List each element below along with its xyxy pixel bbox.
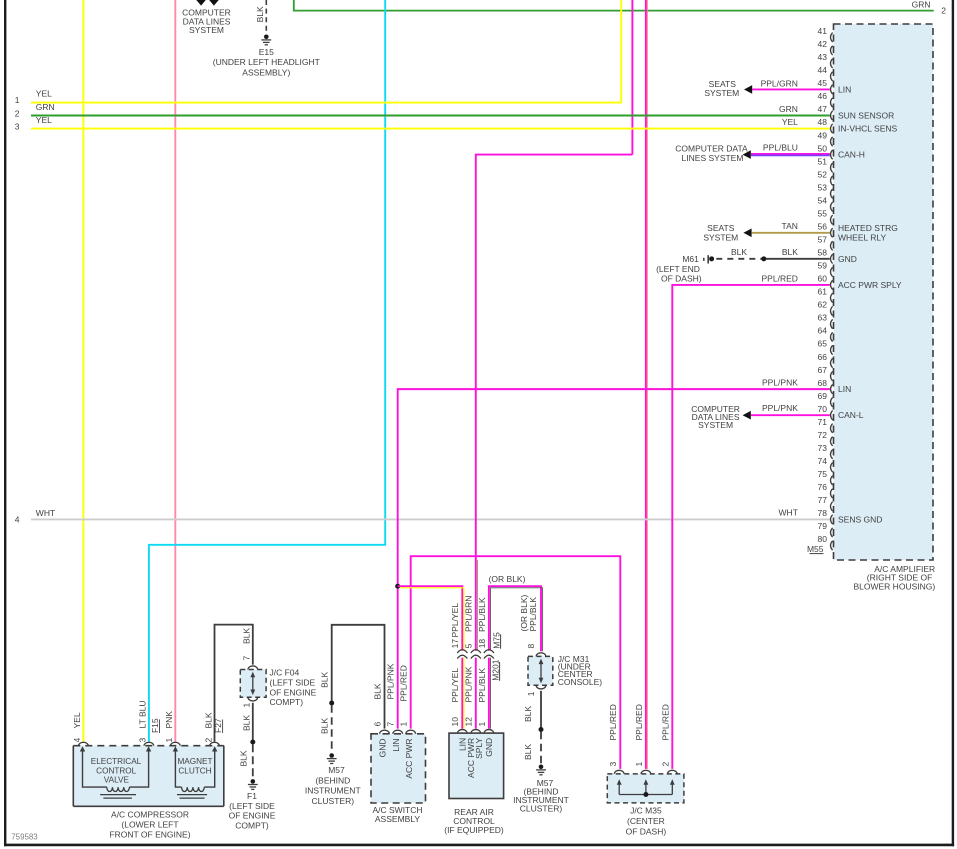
svg-text:7: 7 xyxy=(386,722,396,727)
pin label ACC PWR SPLY (60) xyxy=(838,280,902,290)
svg-text:PPL/YEL: PPL/YEL xyxy=(450,668,460,703)
label SEATS SYSTEM (pin 56) xyxy=(703,223,738,243)
junction dot (J/C M35 bus) xyxy=(643,792,648,797)
svg-text:WHT: WHT xyxy=(36,508,55,518)
svg-text:PPL/RED: PPL/RED xyxy=(762,274,798,284)
electrical control valve box xyxy=(83,749,149,788)
svg-text:69: 69 xyxy=(818,391,828,401)
svg-text:BLK: BLK xyxy=(255,6,265,22)
computer data lines arrow A xyxy=(196,0,206,6)
svg-text:BLK: BLK xyxy=(320,672,330,688)
pin label HEATED STRG WHEEL RLY (56) xyxy=(838,223,898,243)
label A/C SWITCH ASSEMBLY xyxy=(372,805,422,824)
svg-text:OF DASH): OF DASH) xyxy=(661,273,702,283)
svg-text:ASSEMBLY: ASSEMBLY xyxy=(375,814,421,824)
svg-text:PPL/YEL: PPL/YEL xyxy=(450,603,460,638)
label (OR BLK) PPL/BLK vertical xyxy=(519,594,538,631)
label PPL/RED (pin 60) xyxy=(762,274,798,284)
label M57 (BEHIND INSTRUMENT CLUSTER) right xyxy=(513,778,569,814)
svg-text:BLK: BLK xyxy=(782,247,798,257)
junction dot (M57 branch) xyxy=(329,701,334,706)
svg-text:(LOWER LEFT: (LOWER LEFT xyxy=(121,820,178,830)
node tag 2 (right edge) xyxy=(941,6,946,16)
svg-text:43: 43 xyxy=(818,52,828,62)
pin 8 label (J/C M31) xyxy=(526,644,536,649)
wire GRN (top, exits right edge, tag 2) xyxy=(294,0,934,11)
svg-text:(BEHIND: (BEHIND xyxy=(315,775,350,785)
label J/C M35 (CENTER OF DASH) xyxy=(626,805,667,836)
svg-text:LIN: LIN xyxy=(391,739,401,752)
svg-text:PPL/RED: PPL/RED xyxy=(661,704,671,740)
wire YEL tag3 to amplifier pin 48 xyxy=(31,128,830,130)
svg-text:CONSOLE): CONSOLE) xyxy=(558,677,603,687)
pin 3 label (compressor) xyxy=(138,738,148,743)
svg-text:57: 57 xyxy=(818,235,828,245)
pin label LIN (REAR AIR) xyxy=(458,738,468,751)
svg-text:OF DASH): OF DASH) xyxy=(626,827,667,837)
connector hooks REAR AIR CONTROL xyxy=(457,730,494,734)
svg-text:4: 4 xyxy=(72,738,82,743)
svg-text:45: 45 xyxy=(818,78,828,88)
inline connector M75/M201 pin 5 xyxy=(471,650,481,659)
svg-text:53: 53 xyxy=(818,182,828,192)
wire PPL/PNK from pin 68 LIN to A/C switch pin 7 xyxy=(398,389,830,728)
connector hooks A/C SWITCH ASSEMBLY xyxy=(380,730,416,734)
svg-text:COMPT): COMPT) xyxy=(270,697,304,707)
svg-text:M75: M75 xyxy=(491,632,501,649)
wire YEL vertical to compressor pin 4 xyxy=(82,0,84,742)
pin 1 label (compressor) xyxy=(164,738,174,743)
label BLK (M31 lower) xyxy=(523,744,533,760)
svg-text:3: 3 xyxy=(138,738,148,743)
label A/C COMPRESSOR (LOWER LEFT FRONT OF ENGINE) xyxy=(109,810,190,840)
pin label LIN (45) xyxy=(838,84,851,94)
svg-text:ELECTRICAL: ELECTRICAL xyxy=(91,757,142,766)
svg-text:COMPT): COMPT) xyxy=(235,820,269,830)
svg-text:BLK: BLK xyxy=(203,712,213,728)
svg-text:INSTRUMENT: INSTRUMENT xyxy=(305,786,361,796)
pin label LIN (A/C switch) xyxy=(391,739,401,752)
arrow to seats system (pin 45) xyxy=(744,85,752,94)
connector hooks J/C M35 xyxy=(614,770,677,774)
pin label GND (58) xyxy=(838,254,857,264)
label M201 xyxy=(490,659,500,681)
label A/C AMPLIFIER (RIGHT SIDE OF BLOWER HOUSING) xyxy=(853,564,935,592)
svg-text:70: 70 xyxy=(818,404,828,414)
svg-text:4: 4 xyxy=(15,514,20,524)
connector M61 stub symbol xyxy=(704,255,708,263)
svg-text:SYSTEM: SYSTEM xyxy=(698,420,733,430)
pin label SENS GND (78) xyxy=(838,514,882,524)
svg-text:PPL/RED: PPL/RED xyxy=(634,704,644,740)
label BLK (switch gnd lower) xyxy=(320,718,330,734)
svg-text:51: 51 xyxy=(818,156,828,166)
svg-text:(LEFT SIDE: (LEFT SIDE xyxy=(270,677,316,687)
label PPL/BLK (above M75) xyxy=(477,597,487,632)
svg-text:M55: M55 xyxy=(807,544,824,554)
pin 1 label (J/C M31) xyxy=(526,691,536,696)
svg-text:68: 68 xyxy=(818,378,828,388)
pin label CAN-L (70) xyxy=(838,410,864,420)
label M57 (BEHIND INSTRUMENT CLUSTER) left xyxy=(305,765,361,806)
svg-text:PPL/BRN: PPL/BRN xyxy=(464,596,474,632)
wire BLK dashed to F1 ground xyxy=(252,744,254,777)
svg-text:1: 1 xyxy=(477,722,487,727)
pin label ACC PWR (A/C switch) xyxy=(404,739,414,779)
label M55 xyxy=(807,544,824,554)
svg-text:E15: E15 xyxy=(259,47,274,57)
svg-text:42: 42 xyxy=(818,39,828,49)
label TAN xyxy=(782,221,798,231)
wire PPL/YEL M201 to REAR AIR pin 10 xyxy=(462,658,464,729)
svg-text:GND: GND xyxy=(378,739,388,758)
label (OR BLK) horizontal xyxy=(489,574,526,584)
label LT BLU (compressor pin 3) xyxy=(138,700,148,728)
clutch coil xyxy=(177,787,207,798)
svg-text:CLUTCH: CLUTCH xyxy=(178,767,211,776)
svg-text:49: 49 xyxy=(818,130,828,140)
wire PPL/BLK REAR AIR GND to J/C M31 pin 8 xyxy=(489,586,543,651)
wire BLK dashed to M57 ground xyxy=(331,705,333,751)
svg-text:2: 2 xyxy=(661,762,671,767)
wire PNK vertical to compressor pin 1 xyxy=(174,0,176,742)
connector hooks A/C COMPRESSOR xyxy=(78,742,219,745)
label BLK (dashed segment) xyxy=(731,247,747,257)
label PPL/PNK (pin 68) xyxy=(762,377,798,387)
ground F1 xyxy=(248,779,258,789)
connector hook J/C M31 top xyxy=(536,653,546,657)
magnet clutch box xyxy=(175,749,214,788)
svg-text:YEL: YEL xyxy=(36,89,52,99)
clutch pin arrows xyxy=(173,746,218,751)
label F15 xyxy=(150,718,160,733)
svg-text:6: 6 xyxy=(372,722,382,727)
svg-text:71: 71 xyxy=(818,417,828,427)
label PPL/PNK (pin 70) xyxy=(762,403,798,413)
wire PPL/PNK to COMPUTER DATA LINES SYSTEM (pin 70) xyxy=(751,414,830,416)
svg-text:CONTROL: CONTROL xyxy=(96,766,136,775)
wire BLK dashed to M57 ground (right) xyxy=(540,732,542,764)
svg-text:58: 58 xyxy=(818,248,828,258)
label BLK (A/C switch pin 6) xyxy=(372,683,382,699)
junction dot on LIN wire xyxy=(395,584,400,589)
svg-text:FRONT OF ENGINE): FRONT OF ENGINE) xyxy=(109,829,190,839)
svg-text:SPLY: SPLY xyxy=(474,737,484,758)
junction dot (F1 branch) xyxy=(250,740,255,745)
pin 7 label (J/C F04) xyxy=(241,656,251,661)
svg-text:A/C COMPRESSOR: A/C COMPRESSOR xyxy=(111,810,189,820)
svg-text:78: 78 xyxy=(818,508,828,518)
svg-text:BLK: BLK xyxy=(241,715,251,731)
pin label LIN (68) xyxy=(838,384,851,394)
amplifier pin numbers 41-80 xyxy=(818,26,828,544)
ground M57 (left) xyxy=(327,753,337,763)
svg-text:J/C F04: J/C F04 xyxy=(270,668,300,678)
label PPL/BLU xyxy=(763,142,798,152)
svg-text:GRN: GRN xyxy=(36,102,55,112)
svg-text:(IF EQUIPPED): (IF EQUIPPED) xyxy=(444,825,504,835)
svg-text:PPL/BLK: PPL/BLK xyxy=(477,597,487,632)
computer data lines arrow B xyxy=(209,0,219,6)
svg-text:MAGNET: MAGNET xyxy=(177,757,212,766)
svg-text:59: 59 xyxy=(818,261,828,271)
svg-text:47: 47 xyxy=(818,104,828,114)
label BLK (above J/C F04) xyxy=(241,628,251,644)
svg-text:PPL/BLK: PPL/BLK xyxy=(477,668,487,703)
label PPL/YEL (below M201) xyxy=(450,668,460,703)
label WHT (wire 4) xyxy=(36,508,55,518)
svg-text:TAN: TAN xyxy=(782,221,798,231)
label PPL/PNK (A/C switch pin 7) xyxy=(386,663,396,699)
pin 2 label (J/C M35) xyxy=(661,762,671,767)
pin 5 label xyxy=(464,643,474,648)
svg-text:F15: F15 xyxy=(150,718,160,733)
svg-text:WHEEL RLY: WHEEL RLY xyxy=(838,233,887,243)
label BLK (dashed to F1) xyxy=(239,750,249,766)
amplifier pin hooks 41-80 xyxy=(831,33,833,551)
svg-text:LIN: LIN xyxy=(838,384,851,394)
svg-text:76: 76 xyxy=(818,482,828,492)
component A/C AMPLIFIER connector box xyxy=(834,24,934,560)
svg-text:2: 2 xyxy=(15,108,20,118)
label PPL/PNK (below M201) xyxy=(464,666,474,702)
wire BLK to E15 (dashed) xyxy=(265,0,267,33)
svg-text:PPL/PNK: PPL/PNK xyxy=(386,663,396,699)
pin label ACC PWR SPLY (REAR AIR) xyxy=(466,737,484,777)
svg-text:SYSTEM: SYSTEM xyxy=(704,88,739,98)
svg-text:F27: F27 xyxy=(213,718,223,733)
ground E15 xyxy=(261,35,271,45)
label REAR AIR CONTROL (IF EQUIPPED) xyxy=(444,807,504,835)
svg-text:LINES SYSTEM: LINES SYSTEM xyxy=(682,153,744,163)
pin label GND (A/C switch) xyxy=(378,739,388,758)
node tag 1 (left) xyxy=(15,95,20,105)
wire BLK A/C switch GND to M57 ground xyxy=(332,625,385,729)
label PPL/BRN (above M75) xyxy=(464,596,474,632)
svg-text:66: 66 xyxy=(818,352,828,362)
label BLK (M31 upper) xyxy=(523,706,533,722)
svg-text:73: 73 xyxy=(818,443,828,453)
wire PPL/RED link A/C switch ACC PWR to J/C M35 pin 3 xyxy=(411,556,621,769)
svg-text:CAN-L: CAN-L xyxy=(838,410,864,420)
svg-text:BLK: BLK xyxy=(239,750,249,766)
svg-text:72: 72 xyxy=(818,430,828,440)
wire PPL/RED vertical (from top) to J/C M35 pin 1 xyxy=(646,0,648,769)
svg-text:PNK: PNK xyxy=(164,711,174,729)
J/C M31 internal arrows xyxy=(539,659,544,684)
svg-text:56: 56 xyxy=(818,221,828,231)
wire BLK compressor pin 2 to J/C F04 pin 7 xyxy=(215,625,253,742)
svg-text:YEL: YEL xyxy=(782,117,798,127)
svg-text:BLK: BLK xyxy=(731,247,747,257)
svg-text:BLK: BLK xyxy=(320,718,330,734)
svg-text:SEATS: SEATS xyxy=(707,223,735,233)
node tag 2 (left) xyxy=(15,108,20,118)
wire PPL/BLU to COMPUTER DATA LINES SYSTEM (pin 50) xyxy=(751,154,830,156)
svg-text:BLK: BLK xyxy=(241,628,251,644)
svg-text:IN-VHCL SENS: IN-VHCL SENS xyxy=(838,124,898,134)
connector hook J/C F04 bottom xyxy=(248,697,258,701)
svg-text:PPL/RED: PPL/RED xyxy=(608,704,618,740)
svg-text:BLOWER HOUSING): BLOWER HOUSING) xyxy=(853,581,935,591)
label J/C F04 (LEFT SIDE OF ENGINE COMPT) xyxy=(270,668,317,708)
svg-text:GND: GND xyxy=(838,254,857,264)
wire BLK from J/C M31 pin 1 xyxy=(540,691,542,728)
label M75 xyxy=(491,632,501,649)
svg-text:67: 67 xyxy=(818,365,828,375)
label WHT (at pin 78) xyxy=(779,508,798,518)
label COMPUTER DATA LINES SYSTEM (top left) xyxy=(182,7,231,35)
svg-text:80: 80 xyxy=(818,534,828,544)
svg-text:79: 79 xyxy=(818,521,828,531)
label PPL/RED (M35 pin 1) xyxy=(634,704,644,740)
svg-text:17: 17 xyxy=(450,639,460,649)
label PPL/RED (M35 pin 3) xyxy=(608,704,618,740)
pin 1 label (J/C M35) xyxy=(634,762,644,767)
wire GRN tag2 to amplifier pin 47 xyxy=(31,115,830,117)
svg-text:2: 2 xyxy=(941,6,946,16)
svg-text:1: 1 xyxy=(164,738,174,743)
svg-text:GRN: GRN xyxy=(779,104,798,114)
junction dot M61 pigtail right xyxy=(761,256,766,261)
svg-text:5: 5 xyxy=(464,643,474,648)
pin 4 label (compressor) xyxy=(72,738,82,743)
pin 1 label (REAR AIR) xyxy=(477,722,487,727)
svg-text:PPL/BLK: PPL/BLK xyxy=(528,597,538,632)
valve pin arrows xyxy=(80,746,152,751)
pin label SUN SENSOR (47) xyxy=(838,111,894,121)
wire BLK from J/C F04 pin 1 xyxy=(252,703,254,740)
label COMPUTER DATA LINES SYSTEM (pin 70) xyxy=(691,404,740,430)
svg-text:3: 3 xyxy=(15,122,20,132)
component REAR AIR CONTROL box xyxy=(449,733,504,798)
svg-text:77: 77 xyxy=(818,495,828,505)
wire PPL horizontal + drop to M75 pin 5 xyxy=(476,155,633,651)
svg-text:52: 52 xyxy=(818,169,828,179)
wire WHT tag4 to amplifier pin 78 xyxy=(31,518,830,520)
svg-text:PPL/PNK: PPL/PNK xyxy=(464,666,474,702)
node tag 4 (left) xyxy=(15,514,20,524)
svg-text:1: 1 xyxy=(241,703,251,708)
label SEATS SYSTEM (pin 45) xyxy=(704,79,739,98)
svg-text:SUN SENSOR: SUN SENSOR xyxy=(838,111,894,121)
diagram number 759583 xyxy=(11,833,38,842)
svg-text:BLK: BLK xyxy=(372,683,382,699)
svg-text:PPL/GRN: PPL/GRN xyxy=(761,78,798,88)
svg-text:F1: F1 xyxy=(247,791,257,801)
label BLK (below J/C F04) xyxy=(241,715,251,731)
inline connector M75/M201 pin 17 xyxy=(457,650,467,659)
label (LEFT END OF DASH) xyxy=(656,264,702,283)
svg-text:3: 3 xyxy=(608,762,618,767)
component J/C M31 box xyxy=(528,656,553,685)
svg-text:1: 1 xyxy=(526,691,536,696)
svg-text:1: 1 xyxy=(634,762,644,767)
svg-text:61: 61 xyxy=(818,287,828,297)
wire PPL/BLK M201 to REAR AIR pin 1 xyxy=(489,658,491,729)
ground M57 (right) xyxy=(536,765,546,775)
label J/C M31 (UNDER CENTER CONSOLE) xyxy=(558,654,603,687)
svg-text:(OR BLK): (OR BLK) xyxy=(489,574,526,584)
wire TAN to SEATS SYSTEM (pin 56) xyxy=(752,232,830,234)
svg-text:60: 60 xyxy=(818,274,828,284)
label YEL (wire 1) xyxy=(36,89,52,99)
label PNK (compressor pin 1) xyxy=(164,711,174,729)
svg-text:1: 1 xyxy=(15,95,20,105)
pin 1 label (J/C F04) xyxy=(241,703,251,708)
label PPL/GRN xyxy=(761,78,798,88)
label PPL/YEL (above M75) xyxy=(450,603,460,638)
svg-text:BLK: BLK xyxy=(523,706,533,722)
svg-text:ASSEMBLY): ASSEMBLY) xyxy=(242,67,290,77)
svg-text:YEL: YEL xyxy=(72,712,82,728)
svg-text:YEL: YEL xyxy=(36,115,52,125)
label PPL/RED (A/C switch pin 1) xyxy=(399,665,409,701)
svg-text:1: 1 xyxy=(399,722,409,727)
inline connector M75/M201 pin 18 xyxy=(484,650,494,659)
svg-text:BLK: BLK xyxy=(523,744,533,760)
svg-text:COMPUTER DATA: COMPUTER DATA xyxy=(675,143,748,153)
svg-text:(UNDER LEFT HEADLIGHT: (UNDER LEFT HEADLIGHT xyxy=(213,57,320,67)
wire PPL/PNK M201 to REAR AIR pin 12 xyxy=(475,658,477,729)
label M61 xyxy=(682,254,699,264)
svg-text:CLUSTER): CLUSTER) xyxy=(312,796,355,806)
pin 10 label (REAR AIR) xyxy=(450,717,460,727)
pin label GND (REAR AIR) xyxy=(484,738,494,757)
svg-text:WHT: WHT xyxy=(779,508,798,518)
svg-text:OF ENGINE: OF ENGINE xyxy=(270,687,317,697)
pin label IN-VHCL SENS (48) xyxy=(838,124,898,134)
svg-text:48: 48 xyxy=(818,117,828,127)
svg-text:759583: 759583 xyxy=(11,833,38,842)
svg-text:PPL/PNK: PPL/PNK xyxy=(762,377,798,387)
pin 7 label (A/C switch) xyxy=(386,722,396,727)
pin label CAN-H (50) xyxy=(838,150,865,160)
pin 1 label (A/C switch) xyxy=(399,722,409,727)
svg-text:PPL/BLU: PPL/BLU xyxy=(763,142,798,152)
wire PPL vertical (from top) to corner xyxy=(631,0,633,155)
pin 12 label (REAR AIR) xyxy=(464,717,474,727)
svg-text:64: 64 xyxy=(818,326,828,336)
svg-text:M57: M57 xyxy=(328,765,345,775)
svg-text:12: 12 xyxy=(464,717,474,727)
wire BLK M61 pigtail to GND (pin 58) xyxy=(716,258,830,260)
svg-text:55: 55 xyxy=(818,208,828,218)
label E15 (under left headlight assembly) xyxy=(213,47,320,77)
connector hook J/C M31 bottom xyxy=(536,685,546,689)
svg-text:M61: M61 xyxy=(682,254,699,264)
label BLK (solid segment) xyxy=(782,247,798,257)
wire YEL tag1 to top edge xyxy=(31,0,621,103)
pin 2 label (compressor) xyxy=(203,738,213,743)
svg-text:M201: M201 xyxy=(490,659,500,681)
svg-text:SYSTEM: SYSTEM xyxy=(189,25,224,35)
junction dot (M31 gnd branch) xyxy=(539,727,544,732)
label GRN (wire 2) xyxy=(36,102,55,112)
wire PPL/GRN to SEATS SYSTEM (pin 45) xyxy=(752,88,830,90)
svg-text:65: 65 xyxy=(818,339,828,349)
arrow to computer data lines system (pin 70) xyxy=(743,411,751,420)
svg-text:CLUSTER): CLUSTER) xyxy=(520,804,563,814)
valve coil xyxy=(100,787,136,798)
label BLK (switch gnd upper) xyxy=(320,672,330,688)
svg-text:OF ENGINE: OF ENGINE xyxy=(229,811,276,821)
svg-text:75: 75 xyxy=(818,469,828,479)
svg-text:54: 54 xyxy=(818,195,828,205)
component J/C F04 box xyxy=(240,670,266,698)
svg-text:LIN: LIN xyxy=(838,84,851,94)
svg-text:41: 41 xyxy=(818,26,828,36)
